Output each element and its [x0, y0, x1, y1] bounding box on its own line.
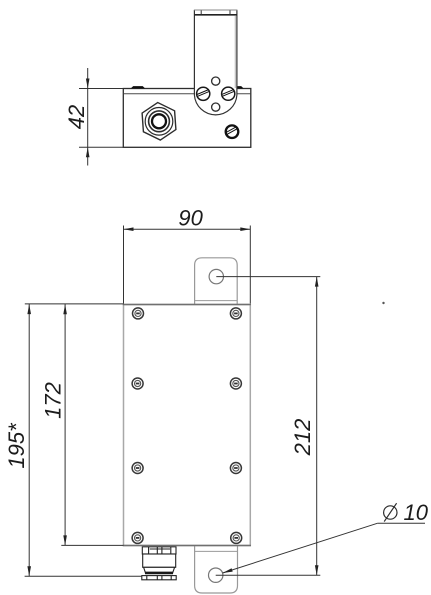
svg-text:195*: 195*	[4, 422, 29, 469]
svg-text:172: 172	[41, 382, 66, 419]
svg-text:10: 10	[404, 500, 429, 525]
svg-text:42: 42	[64, 105, 89, 129]
svg-text:90: 90	[178, 205, 203, 230]
svg-text:212: 212	[290, 419, 315, 457]
